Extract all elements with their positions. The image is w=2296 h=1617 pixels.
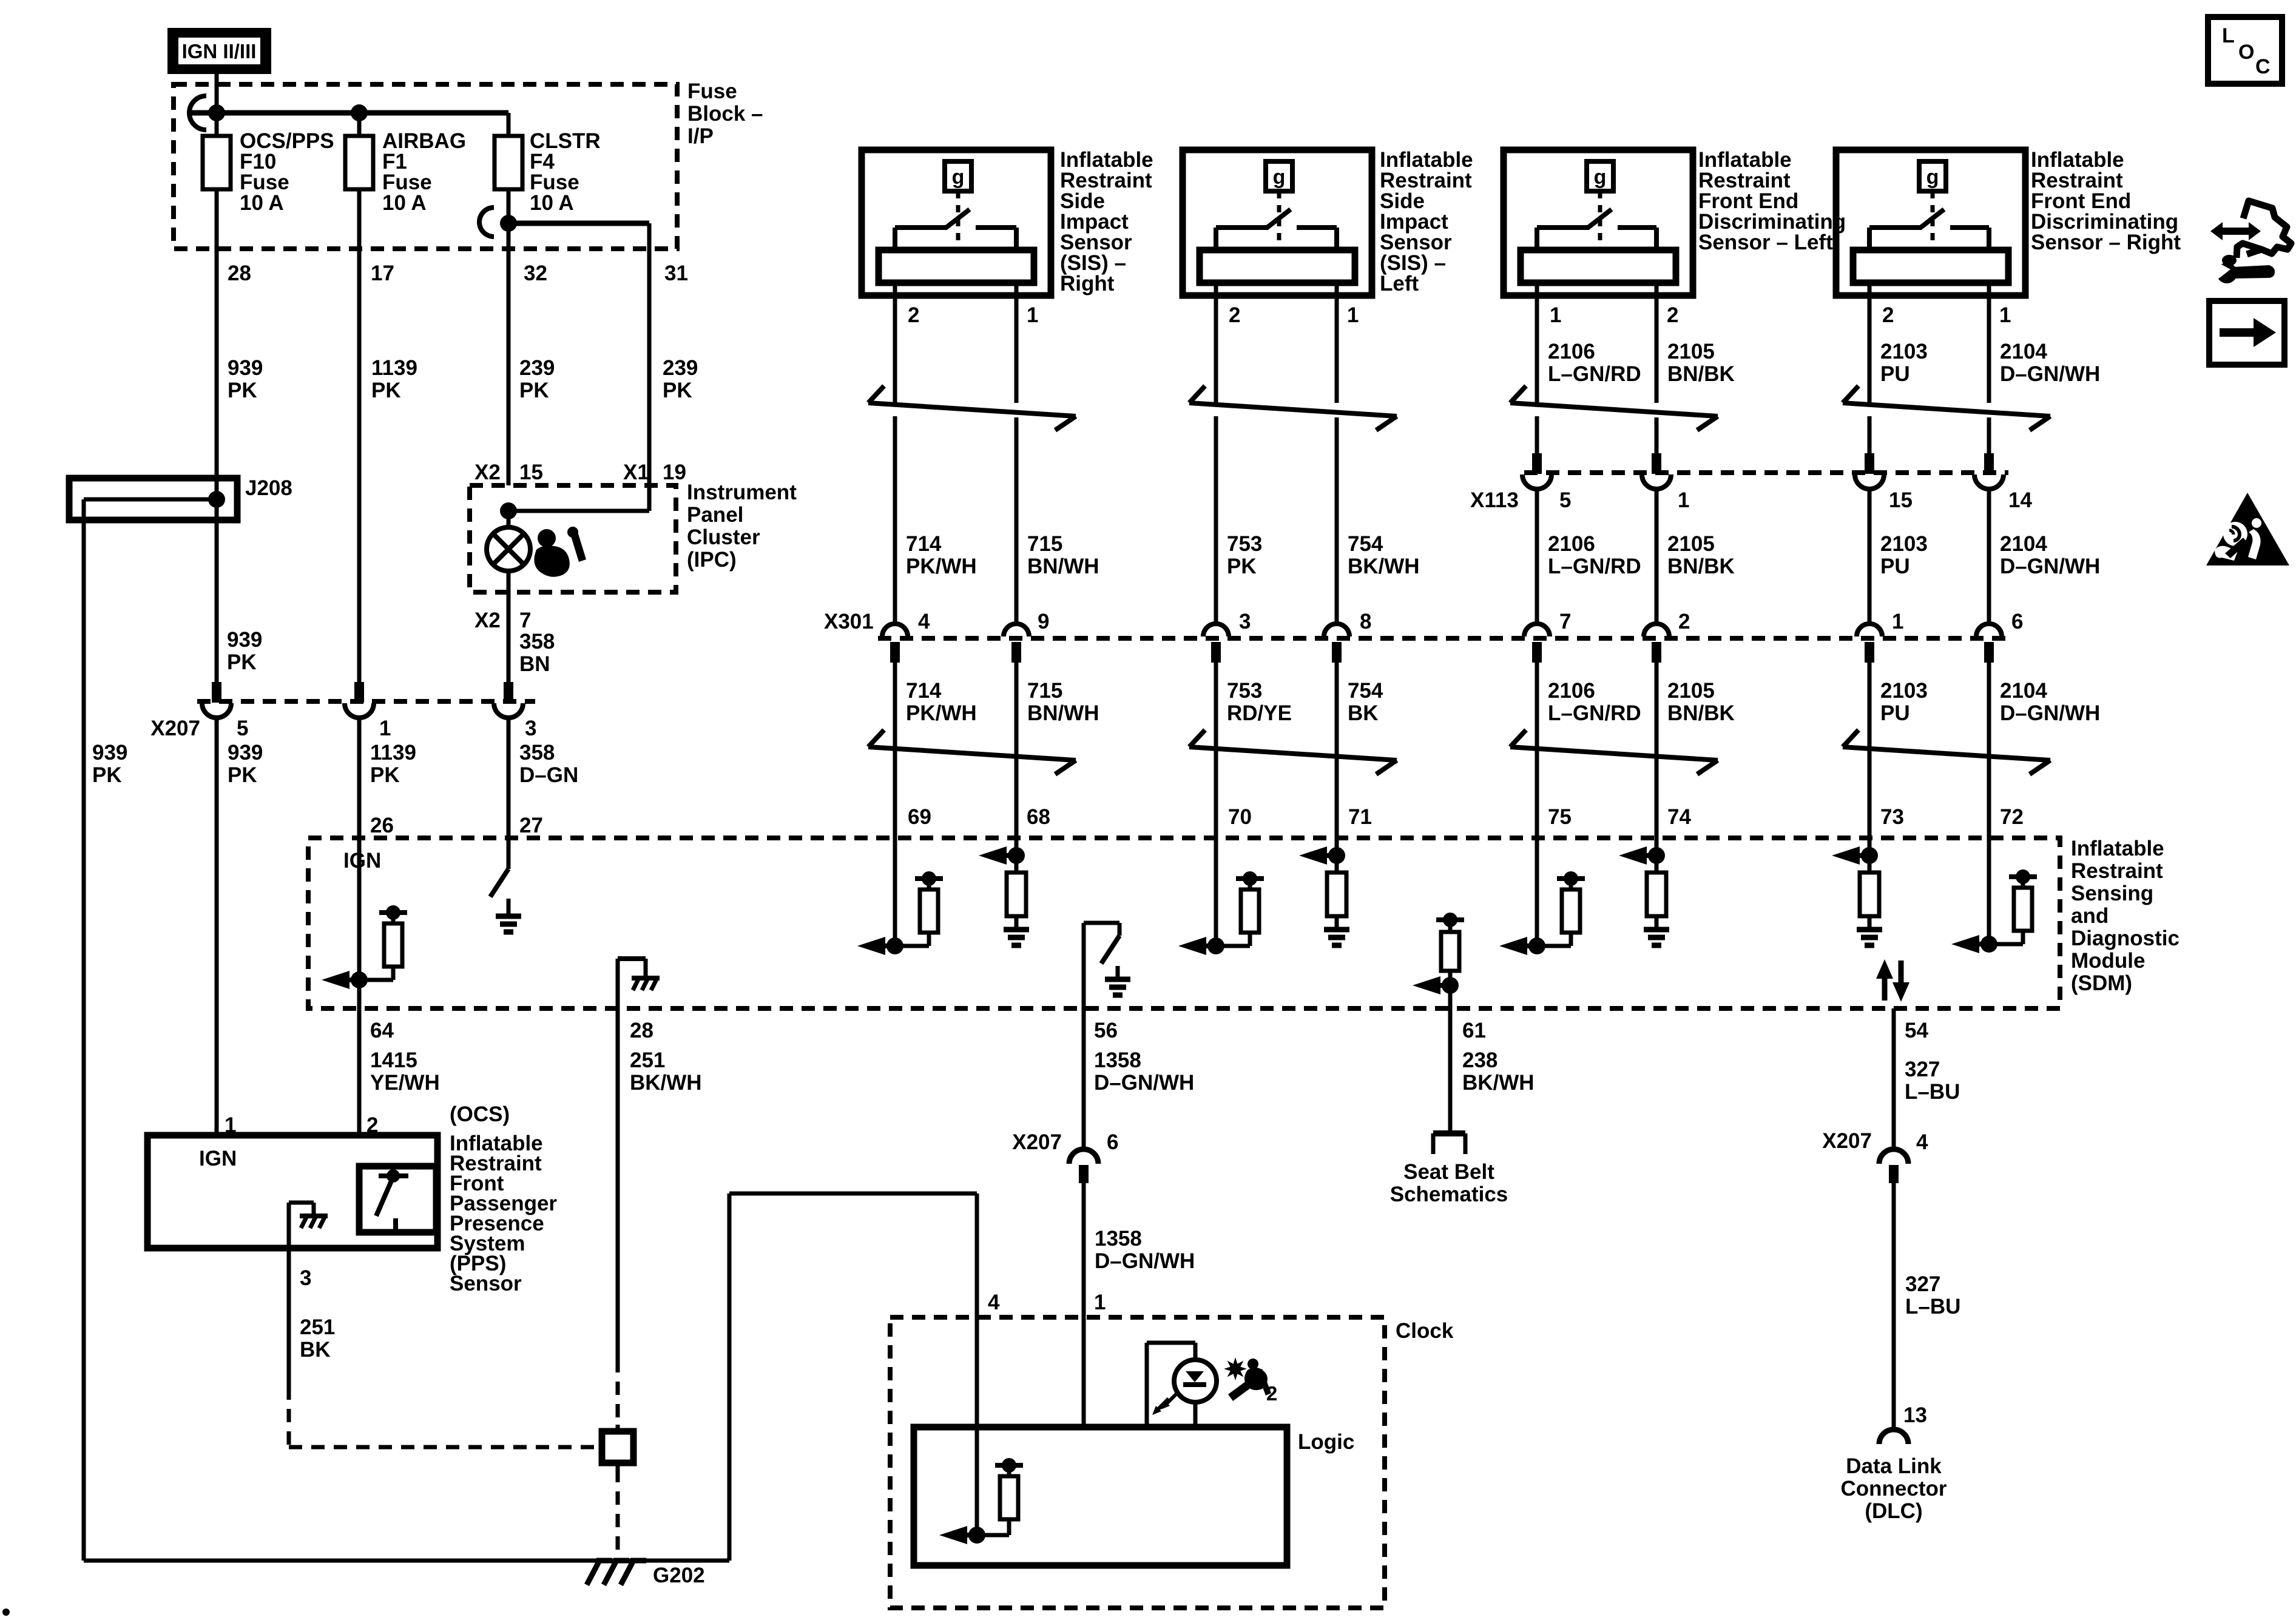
svg-text:2: 2	[1667, 303, 1678, 327]
svg-text:4: 4	[988, 1291, 1000, 1314]
svg-text:2105: 2105	[1667, 340, 1715, 363]
svg-text:69: 69	[908, 805, 931, 829]
svg-text:Sensor – Right: Sensor – Right	[2031, 231, 2181, 254]
svg-text:2106: 2106	[1548, 679, 1595, 703]
svg-text:3: 3	[300, 1266, 311, 1290]
svg-text:28: 28	[228, 262, 251, 285]
svg-text:6: 6	[1107, 1130, 1118, 1154]
svg-text:PK/WH: PK/WH	[906, 701, 977, 725]
svg-text:7: 7	[519, 609, 531, 632]
svg-text:Data Link: Data Link	[1846, 1454, 1942, 1478]
svg-text:358: 358	[519, 741, 555, 765]
svg-text:239: 239	[663, 356, 698, 380]
svg-text:X2: X2	[474, 609, 501, 632]
svg-text:17: 17	[371, 262, 394, 285]
svg-text:PU: PU	[1880, 701, 1910, 725]
svg-text:715: 715	[1027, 532, 1062, 556]
svg-text:2104: 2104	[2000, 340, 2047, 363]
svg-text:2103: 2103	[1880, 532, 1928, 556]
svg-text:Sensing: Sensing	[2071, 882, 2153, 905]
svg-text:(SDM): (SDM)	[2071, 971, 2132, 995]
svg-text:327: 327	[1905, 1272, 1940, 1296]
svg-text:15: 15	[1889, 488, 1913, 512]
svg-text:PK: PK	[228, 763, 257, 787]
svg-text:5: 5	[237, 717, 248, 740]
svg-text:753: 753	[1227, 679, 1262, 703]
svg-text:g: g	[1926, 166, 1939, 189]
svg-text:1139: 1139	[371, 356, 417, 380]
svg-text:2104: 2104	[2000, 532, 2047, 556]
svg-text:2: 2	[908, 303, 919, 327]
svg-text:(IPC): (IPC)	[687, 548, 737, 572]
svg-text:g: g	[1273, 166, 1286, 189]
svg-text:L–BU: L–BU	[1905, 1295, 1960, 1318]
svg-text:27: 27	[519, 814, 543, 837]
svg-text:RD/YE: RD/YE	[1227, 701, 1292, 725]
svg-text:BN/BK: BN/BK	[1667, 555, 1735, 578]
svg-text:1: 1	[1678, 488, 1689, 512]
svg-text:2: 2	[1266, 1382, 1277, 1405]
svg-text:32: 32	[524, 262, 547, 285]
svg-text:74: 74	[1667, 805, 1691, 829]
svg-text:Schematics: Schematics	[1390, 1183, 1508, 1206]
svg-text:68: 68	[1027, 805, 1050, 829]
svg-text:X301: X301	[824, 610, 874, 633]
svg-text:10 A: 10 A	[382, 191, 427, 215]
svg-text:X113: X113	[1470, 488, 1519, 512]
svg-text:I/P: I/P	[687, 124, 714, 148]
svg-text:714: 714	[906, 679, 942, 703]
svg-text:2104: 2104	[2000, 679, 2047, 703]
svg-text:939: 939	[228, 356, 263, 380]
svg-text:754: 754	[1348, 679, 1383, 703]
svg-text:L–GN/RD: L–GN/RD	[1548, 362, 1641, 386]
svg-text:L–GN/RD: L–GN/RD	[1548, 555, 1641, 578]
svg-text:BK: BK	[300, 1338, 331, 1362]
svg-text:1139: 1139	[370, 741, 416, 765]
svg-text:(DLC): (DLC)	[1865, 1499, 1922, 1523]
svg-text:2: 2	[1882, 303, 1894, 327]
svg-text:G202: G202	[653, 1564, 705, 1587]
svg-text:BK/WH: BK/WH	[1348, 555, 1420, 578]
svg-text:2103: 2103	[1880, 340, 1928, 363]
svg-text:26: 26	[370, 814, 394, 837]
svg-text:358: 358	[519, 630, 555, 653]
svg-text:Block –: Block –	[687, 102, 763, 126]
svg-text:g: g	[952, 166, 965, 189]
svg-text:1: 1	[1999, 303, 2011, 327]
svg-text:3: 3	[1239, 610, 1251, 633]
svg-text:70: 70	[1228, 805, 1252, 829]
svg-text:Diagnostic: Diagnostic	[2071, 927, 2180, 950]
svg-text:7: 7	[1559, 610, 1571, 633]
svg-text:PK/WH: PK/WH	[906, 555, 977, 578]
svg-text:2: 2	[1229, 303, 1240, 327]
svg-text:1358: 1358	[1094, 1048, 1141, 1072]
svg-text:939: 939	[227, 628, 262, 652]
svg-text:D–GN/WH: D–GN/WH	[2000, 555, 2100, 578]
svg-text:1: 1	[1094, 1291, 1106, 1314]
svg-text:2106: 2106	[1548, 532, 1595, 556]
svg-text:72: 72	[2000, 805, 2024, 829]
svg-text:6: 6	[2011, 610, 2023, 633]
svg-text:251: 251	[630, 1048, 665, 1072]
svg-text:L: L	[2222, 24, 2235, 47]
svg-text:54: 54	[1905, 1019, 1928, 1042]
svg-text:Panel: Panel	[687, 503, 743, 527]
svg-text:1: 1	[1347, 303, 1359, 327]
svg-text:Inflatable: Inflatable	[2071, 837, 2164, 860]
svg-text:Cluster: Cluster	[687, 525, 760, 549]
svg-text:75: 75	[1548, 805, 1572, 829]
svg-text:BN/BK: BN/BK	[1667, 701, 1735, 725]
svg-text:IGN: IGN	[343, 849, 381, 873]
svg-text:BN/WH: BN/WH	[1027, 701, 1099, 725]
svg-text:Left: Left	[1380, 272, 1419, 295]
svg-text:PK: PK	[519, 379, 549, 402]
svg-text:15: 15	[519, 461, 543, 484]
svg-text:714: 714	[906, 532, 942, 556]
svg-text:9: 9	[1038, 610, 1049, 633]
svg-text:Sensor: Sensor	[450, 1272, 522, 1295]
svg-text:10 A: 10 A	[240, 191, 284, 215]
svg-text:X207: X207	[150, 717, 200, 740]
svg-text:(OCS): (OCS)	[450, 1102, 510, 1126]
svg-text:Instrument: Instrument	[687, 481, 797, 504]
svg-text:Restraint: Restraint	[2071, 859, 2163, 883]
svg-text:1: 1	[1027, 303, 1038, 327]
svg-text:31: 31	[664, 262, 688, 285]
svg-text:939: 939	[92, 741, 127, 765]
svg-text:D–GN/WH: D–GN/WH	[1094, 1071, 1194, 1095]
svg-text:Connector: Connector	[1841, 1477, 1947, 1501]
svg-text:1: 1	[379, 717, 391, 740]
svg-text:2105: 2105	[1667, 532, 1715, 556]
svg-text:D–GN/WH: D–GN/WH	[2000, 701, 2100, 725]
svg-text:Clock: Clock	[1396, 1319, 1454, 1343]
svg-text:PU: PU	[1880, 555, 1910, 578]
svg-text:Right: Right	[1060, 272, 1115, 295]
svg-text:BN: BN	[519, 652, 550, 676]
svg-text:D–GN: D–GN	[519, 763, 578, 787]
svg-text:251: 251	[300, 1315, 335, 1339]
svg-text:PU: PU	[1880, 362, 1910, 386]
svg-text:and: and	[2071, 904, 2109, 928]
svg-text:PK: PK	[92, 763, 122, 787]
svg-text:PK: PK	[370, 763, 400, 787]
svg-text:Module: Module	[2071, 949, 2145, 973]
svg-text:1: 1	[1550, 303, 1561, 327]
svg-text:1358: 1358	[1095, 1227, 1142, 1251]
svg-text:64: 64	[370, 1019, 394, 1042]
svg-text:753: 753	[1227, 532, 1262, 556]
svg-text:238: 238	[1462, 1048, 1497, 1072]
svg-text:BN/WH: BN/WH	[1027, 555, 1099, 578]
svg-text:L–BU: L–BU	[1905, 1080, 1960, 1104]
svg-text:PK: PK	[1227, 555, 1257, 578]
svg-text:BK: BK	[1348, 701, 1379, 725]
svg-text:D–GN/WH: D–GN/WH	[1095, 1249, 1195, 1273]
svg-text:D–GN/WH: D–GN/WH	[2000, 362, 2100, 386]
svg-text:2103: 2103	[1880, 679, 1928, 703]
svg-text:YE/WH: YE/WH	[370, 1071, 440, 1095]
svg-text:61: 61	[1462, 1019, 1486, 1042]
svg-text:28: 28	[630, 1019, 653, 1042]
svg-text:O: O	[2238, 41, 2254, 64]
svg-text:5: 5	[1559, 488, 1571, 512]
svg-text:BK/WH: BK/WH	[630, 1071, 702, 1095]
svg-text:X1: X1	[623, 461, 649, 484]
svg-text:19: 19	[663, 461, 686, 484]
svg-text:BK/WH: BK/WH	[1462, 1071, 1535, 1095]
svg-text:327: 327	[1905, 1058, 1940, 1081]
svg-text:PK: PK	[371, 379, 401, 402]
svg-text:IGN II/III: IGN II/III	[182, 40, 257, 62]
svg-text:56: 56	[1094, 1019, 1118, 1042]
svg-text:J208: J208	[245, 476, 292, 500]
svg-text:Fuse: Fuse	[687, 79, 737, 103]
svg-text:X207: X207	[1822, 1129, 1872, 1153]
svg-text:939: 939	[228, 741, 263, 765]
svg-text:C: C	[2255, 55, 2271, 78]
svg-text:10 A: 10 A	[530, 191, 574, 215]
svg-text:73: 73	[1880, 805, 1904, 829]
svg-text:3: 3	[525, 717, 536, 740]
svg-text:14: 14	[2008, 488, 2032, 512]
svg-text:Logic: Logic	[1298, 1430, 1354, 1454]
svg-text:PK: PK	[228, 379, 257, 402]
svg-text:BN/BK: BN/BK	[1667, 362, 1735, 386]
svg-text:13: 13	[1903, 1403, 1927, 1427]
svg-text:1415: 1415	[370, 1048, 417, 1072]
svg-text:2106: 2106	[1548, 340, 1595, 363]
svg-text:PK: PK	[227, 650, 257, 674]
svg-text:PK: PK	[663, 379, 692, 402]
svg-text:IGN: IGN	[199, 1147, 237, 1170]
svg-text:239: 239	[519, 356, 555, 380]
svg-text:Sensor – Left: Sensor – Left	[1698, 231, 1833, 254]
svg-text:8: 8	[1360, 610, 1371, 633]
svg-text:715: 715	[1027, 679, 1062, 703]
svg-text:2105: 2105	[1667, 679, 1715, 703]
svg-text:4: 4	[1916, 1130, 1928, 1154]
svg-text:2: 2	[1678, 610, 1690, 633]
svg-text:g: g	[1594, 166, 1607, 189]
svg-text:71: 71	[1348, 805, 1372, 829]
svg-text:L–GN/RD: L–GN/RD	[1548, 701, 1641, 725]
svg-text:754: 754	[1348, 532, 1383, 556]
svg-text:Seat Belt: Seat Belt	[1403, 1160, 1494, 1184]
svg-text:X2: X2	[474, 461, 501, 484]
svg-text:4: 4	[918, 610, 930, 633]
svg-text:1: 1	[1892, 610, 1903, 633]
svg-text:X207: X207	[1012, 1130, 1062, 1154]
